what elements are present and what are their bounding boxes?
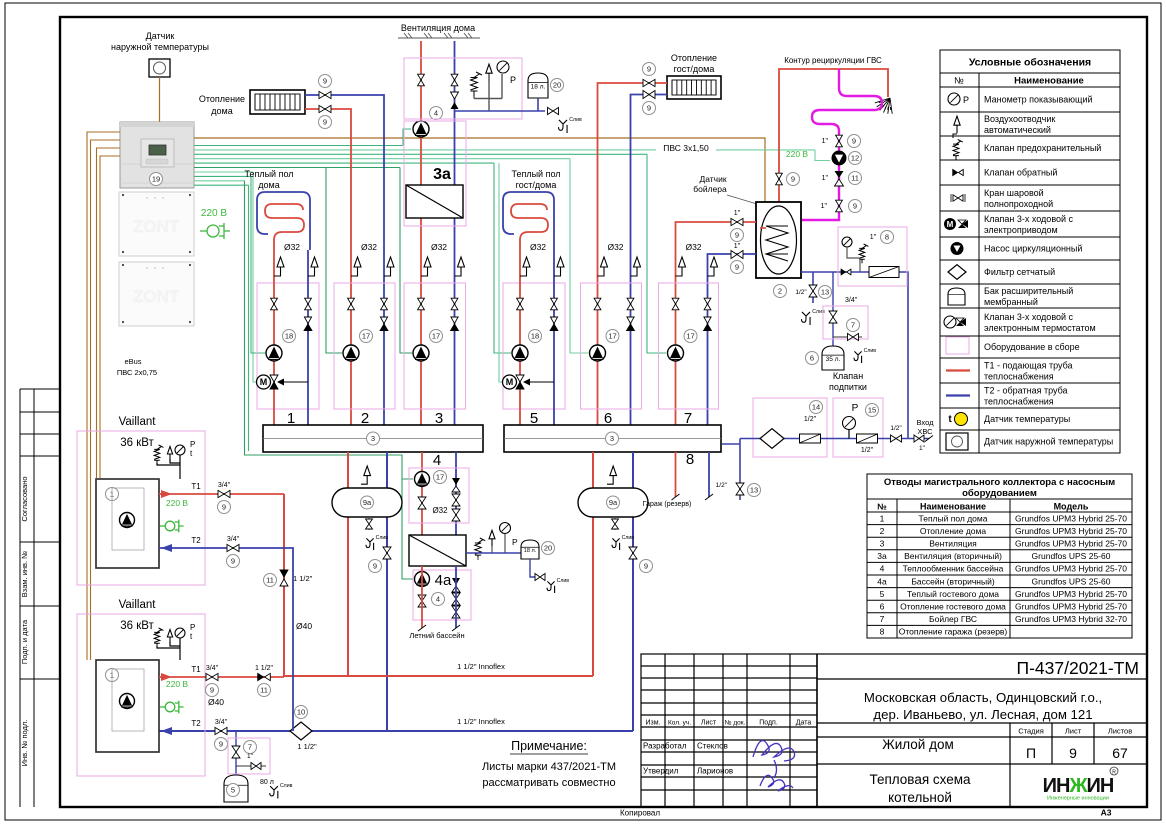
svg-text:9а: 9а — [363, 498, 372, 507]
branch 1 mixing valve M — [257, 375, 309, 389]
svg-text:дома: дома — [258, 180, 279, 190]
svg-text:Слив: Слив — [557, 578, 570, 584]
svg-text:Ø32: Ø32 — [284, 242, 300, 252]
valve 9 on radiator return — [319, 91, 331, 98]
collector B return riser — [632, 452, 634, 731]
svg-text:1": 1" — [822, 175, 829, 182]
svg-text:9а: 9а — [609, 498, 618, 507]
svg-text:P: P — [510, 75, 516, 85]
branch 1 equipment box — [257, 283, 319, 409]
svg-text:Отопление гостевого дома: Отопление гостевого дома — [900, 602, 1006, 612]
svg-text:Ø32: Ø32 — [431, 242, 447, 252]
svg-text:P: P — [512, 537, 518, 547]
svg-text:№ док.: № док. — [725, 720, 746, 727]
svg-text:1/2": 1/2" — [795, 289, 807, 296]
svg-text:ПВС 2х0,75: ПВС 2х0,75 — [117, 368, 157, 377]
svg-text:ХВС: ХВС — [917, 427, 933, 436]
strainer in group 8 — [869, 267, 899, 278]
hydraulic separator 9a (B) — [578, 488, 648, 517]
branch 3 pump — [413, 345, 429, 361]
svg-text:Воздухоотводчик: Воздухоотводчик — [984, 114, 1055, 124]
svg-text:полнопроходной: полнопроходной — [984, 199, 1053, 209]
pointer line to tank — [727, 195, 757, 204]
svg-text:Модель: Модель — [1054, 502, 1089, 512]
svg-text:5: 5 — [880, 589, 885, 599]
svg-text:Слив: Слив — [864, 348, 877, 354]
svg-text:17: 17 — [436, 473, 444, 482]
svg-text:18 л.: 18 л. — [524, 548, 537, 554]
svg-text:Летний бассейн: Летний бассейн — [409, 631, 464, 640]
svg-text:Клапан предохранительный: Клапан предохранительный — [984, 143, 1101, 153]
sensor wire — [159, 77, 161, 122]
valve 9 on radiator supply — [319, 105, 331, 112]
svg-text:11: 11 — [266, 576, 274, 585]
svg-text:3а: 3а — [877, 551, 887, 561]
cold water inlet group box 8 — [838, 227, 907, 286]
vent duct hatch line — [398, 33, 480, 38]
svg-text:Датчик наружной температуры: Датчик наружной температуры — [984, 437, 1113, 447]
recirc pump 12 — [832, 151, 847, 166]
legend symbol circulation pump — [951, 242, 964, 255]
legend symbol air vent — [954, 116, 960, 133]
branch 7 air vents — [676, 257, 686, 276]
svg-text:мембранный: мембранный — [984, 297, 1038, 307]
svg-text:Клапан 3-х ходовой с: Клапан 3-х ходовой с — [984, 214, 1074, 224]
svg-text:Ø40: Ø40 — [296, 621, 312, 631]
svg-text:Кран шаровой: Кран шаровой — [984, 188, 1044, 198]
svg-text:6: 6 — [880, 602, 885, 612]
svg-text:17: 17 — [432, 332, 440, 341]
branch 4 check valve — [452, 478, 460, 485]
branch 4 return — [455, 452, 457, 535]
valve on vent return — [451, 74, 458, 86]
svg-text:Grundfos UPM3 Hybrid 32-70: Grundfos UPM3 Hybrid 32-70 — [1015, 614, 1127, 624]
boiler 1 safety fittings — [154, 445, 163, 464]
svg-text:Примечание:: Примечание: — [511, 739, 587, 753]
svg-text:Бак расширительный: Бак расширительный — [984, 286, 1073, 296]
branch 7 check valve — [704, 317, 712, 331]
svg-text:Grundfos UPS 25-60: Grundfos UPS 25-60 — [1032, 551, 1111, 561]
boiler 1 pump — [120, 513, 135, 528]
controller unit 19 — [120, 122, 194, 188]
svg-text:Теплый пол: Теплый пол — [511, 169, 560, 179]
svg-text:9: 9 — [1069, 745, 1077, 761]
svg-text:2: 2 — [778, 287, 782, 296]
svg-text:Насос циркуляционный: Насос циркуляционный — [984, 244, 1082, 254]
separator B drain valve — [614, 517, 616, 530]
separator A drain valve — [368, 517, 370, 530]
svg-text:1": 1" — [734, 210, 741, 217]
svg-text:9: 9 — [735, 263, 739, 272]
svg-text:4: 4 — [880, 564, 885, 574]
branch 6 equipment box — [581, 283, 642, 409]
branch 2 supply valve — [348, 298, 355, 310]
svg-text:3/4": 3/4" — [218, 482, 231, 489]
svg-text:5: 5 — [231, 786, 235, 795]
svg-text:9: 9 — [853, 202, 857, 211]
svg-text:Т1 - подающая труба: Т1 - подающая труба — [984, 361, 1073, 371]
boiler 1 equipment box — [77, 431, 205, 585]
svg-text:гост/дома: гост/дома — [516, 180, 557, 190]
svg-text:220 В: 220 В — [166, 679, 189, 689]
svg-text:220 В: 220 В — [201, 208, 227, 219]
svg-text:4: 4 — [434, 109, 438, 118]
svg-text:7: 7 — [248, 743, 252, 752]
svg-text:№: № — [877, 502, 887, 512]
svg-text:Бассейн (вторичный): Бассейн (вторичный) — [911, 576, 994, 586]
valve on vent supply — [418, 74, 425, 86]
svg-text:9: 9 — [647, 104, 651, 113]
branch 4 supply from collector — [421, 452, 423, 535]
legend symbol ball valve — [953, 195, 963, 201]
220V control wiring bundle — [194, 129, 830, 579]
svg-text:Бойлер ГВС: Бойлер ГВС — [929, 614, 977, 624]
branch 4a number circle — [432, 593, 445, 606]
boiler 1 T2 arrow — [161, 544, 172, 552]
legend symbol strainer — [948, 265, 966, 280]
branch 8 supply stub — [675, 452, 677, 497]
branch 5 air vents — [520, 257, 530, 276]
svg-text:3/4": 3/4" — [215, 719, 228, 726]
boiler 2 T1 pipe — [159, 676, 284, 678]
legend symbol safety valve — [953, 140, 963, 160]
svg-text:Оборудование в сборе: Оборудование в сборе — [984, 342, 1080, 352]
svg-text:Grundfos UPS 25-60: Grundfos UPS 25-60 — [1032, 576, 1111, 586]
svg-text:11: 11 — [851, 174, 859, 183]
branch 2 air vents — [351, 257, 361, 276]
svg-text:8: 8 — [885, 233, 889, 242]
collector A (branches 1-4) — [263, 425, 483, 452]
tank number 2 — [774, 285, 787, 298]
makeup equipment boxes — [753, 398, 827, 457]
svg-text:Слив: Слив — [376, 535, 389, 541]
branch 5 pump — [512, 345, 528, 361]
outdoor temperature sensor — [149, 59, 170, 77]
svg-text:Наименование: Наименование — [1014, 76, 1084, 87]
svg-text:15: 15 — [868, 406, 876, 415]
svg-text:П: П — [1026, 745, 1036, 761]
svg-text:3: 3 — [880, 539, 885, 549]
branch 4 pump 17 — [415, 472, 430, 487]
branch 4a equipment box — [413, 570, 471, 620]
svg-text:Grundfos UPM3 Hybrid 25-70: Grundfos UPM3 Hybrid 25-70 — [1015, 602, 1127, 612]
check valve on vent return — [451, 92, 459, 99]
sensor bus wire to boiler tank — [194, 138, 765, 202]
branch 3 air vents — [421, 257, 431, 276]
legend symbol manometer — [948, 93, 960, 105]
svg-text:рассматривать совместно: рассматривать совместно — [482, 777, 615, 789]
svg-text:Вход: Вход — [917, 418, 935, 427]
collector B supply riser — [592, 452, 594, 676]
svg-text:наружной температуры: наружной температуры — [111, 42, 209, 52]
svg-text:Ларионов: Ларионов — [697, 767, 733, 776]
svg-text:1 1/2": 1 1/2" — [255, 665, 274, 672]
svg-text:P: P — [190, 623, 195, 632]
svg-text:дома: дома — [211, 106, 232, 116]
branch 3 return valve — [451, 298, 458, 310]
branch 3 supply valve — [418, 298, 425, 310]
group 8 piping — [847, 247, 860, 272]
svg-text:1 1/2": 1 1/2" — [297, 742, 317, 751]
svg-text:67: 67 — [1112, 745, 1128, 761]
svg-text:Стеклов: Стеклов — [697, 742, 728, 751]
svg-text:Инженерные инновации: Инженерные инновации — [1047, 796, 1109, 802]
svg-text:9: 9 — [323, 77, 327, 86]
svg-text:Московская область, Одинцовски: Московская область, Одинцовский г.о., — [864, 690, 1102, 705]
branch 4a pump — [415, 572, 430, 587]
branch 6 supply valve — [594, 298, 601, 310]
air vent — [486, 64, 492, 81]
branch 6 return valve — [627, 298, 634, 310]
svg-text:оборудованием: оборудованием — [962, 488, 1037, 499]
branch 4 valves — [418, 497, 426, 509]
svg-text:Ø32: Ø32 — [607, 242, 623, 252]
svg-text:Вентиляция дома: Вентиляция дома — [401, 23, 475, 33]
svg-text:Листов: Листов — [1108, 727, 1132, 736]
svg-text:Ø32: Ø32 — [361, 242, 377, 252]
branch 6 check valve — [627, 317, 635, 331]
svg-text:2: 2 — [880, 526, 885, 536]
svg-text:10: 10 — [297, 708, 305, 717]
branch 5 supply valve — [517, 298, 524, 310]
legend symbol check valve — [953, 170, 964, 176]
separator B drain — [612, 538, 620, 550]
pump 4 of vent circuit — [413, 121, 429, 137]
svg-text:9: 9 — [222, 503, 226, 512]
svg-text:Ø32: Ø32 — [685, 242, 701, 252]
branch 1 supply valve — [271, 298, 278, 310]
tank coil supply stub (red) — [760, 227, 766, 229]
svg-text:3а: 3а — [433, 166, 451, 183]
svg-text:6: 6 — [810, 354, 814, 363]
branch 5 check valve — [550, 317, 558, 331]
boiler 1 T1 pipe — [159, 493, 284, 495]
branch 3 equipment box — [404, 283, 466, 409]
legend symbol T1 — [946, 369, 970, 371]
boiler drain group with 80l tank — [235, 731, 237, 775]
boiler 2 equipment box — [77, 614, 205, 776]
boiler 1 T1 arrow — [161, 490, 172, 498]
svg-text:Гараж (резерв): Гараж (резерв) — [643, 501, 692, 508]
svg-text:Отопление дома: Отопление дома — [920, 526, 986, 536]
svg-text:1 1/2" Innoflex: 1 1/2" Innoflex — [457, 717, 505, 726]
svg-text:Ø40: Ø40 — [208, 697, 224, 707]
strainer filter 14 — [810, 401, 823, 414]
cold water line from tank bottom — [801, 272, 908, 439]
svg-text:36 кВт: 36 кВт — [120, 620, 154, 632]
svg-text:20: 20 — [544, 544, 552, 553]
safety valve — [471, 72, 483, 96]
branch 6 air vents — [598, 257, 608, 276]
svg-text:4а: 4а — [877, 576, 887, 586]
boiler 2 T1 arrow — [161, 673, 172, 681]
svg-text:Тепловая схема: Тепловая схема — [869, 772, 971, 787]
svg-text:Grundfos UPM3 Hybrid 25-70: Grundfos UPM3 Hybrid 25-70 — [1015, 526, 1127, 536]
svg-text:Отопление гаража (резерв): Отопление гаража (резерв) — [899, 627, 1008, 637]
branch 1 return pipe — [307, 250, 309, 425]
svg-text:17: 17 — [608, 332, 616, 341]
guest radiator supply (red) branch 6 — [598, 83, 668, 425]
svg-text:Теплый гостевого дома: Теплый гостевого дома — [907, 589, 999, 599]
check valve in group 8 — [841, 269, 851, 275]
svg-text:Манометр показывающий: Манометр показывающий — [984, 95, 1093, 105]
branch 5 return pipe — [553, 250, 555, 425]
tank return pipe (blue) branch 7 — [708, 254, 757, 425]
svg-text:1 1/2": 1 1/2" — [293, 574, 313, 583]
svg-text:1": 1" — [870, 234, 877, 241]
svg-text:1: 1 — [880, 513, 885, 523]
svg-text:Наименование: Наименование — [920, 502, 986, 512]
valve 9 under separator A — [383, 547, 391, 559]
svg-text:Grundfos UPM3 Hybrid 25-70: Grundfos UPM3 Hybrid 25-70 — [1015, 539, 1127, 549]
boiler 2 pump — [120, 694, 135, 709]
guest radiator return (blue) branch 6 — [631, 95, 668, 426]
boiler 2 T2 arrow — [161, 727, 172, 735]
svg-text:20: 20 — [553, 81, 561, 90]
svg-text:11: 11 — [260, 686, 268, 695]
controller number 19 — [150, 173, 163, 186]
svg-text:9: 9 — [852, 137, 856, 146]
svg-text:Подп. и дата: Подп. и дата — [20, 619, 29, 664]
svg-text:17: 17 — [362, 332, 370, 341]
floor heating loop (guest house) — [503, 192, 554, 250]
svg-text:Vaillant: Vaillant — [119, 416, 157, 428]
svg-text:18 л.: 18 л. — [531, 84, 546, 91]
svg-text:Взам. инв. №: Взам. инв. № — [20, 551, 29, 597]
branch 2 equipment box — [334, 283, 395, 409]
svg-text:Отопление: Отопление — [671, 53, 717, 63]
left margin column grid — [20, 389, 59, 807]
hydraulic separator 9a (A) — [332, 488, 402, 517]
branch 2 return valve — [381, 298, 388, 310]
svg-text:3/4": 3/4" — [206, 665, 219, 672]
pool expansion tank 18l — [521, 540, 539, 559]
svg-text:Отопление: Отопление — [199, 94, 245, 104]
branch 5 circle number 18 — [529, 330, 542, 343]
pool pipes down — [421, 566, 423, 628]
svg-text:Теплообменник бассейна: Теплообменник бассейна — [903, 564, 1004, 574]
pump table Отводы магистрального коллектора — [867, 474, 1132, 638]
valve 9 under separator B — [629, 547, 637, 559]
branch 1 supply pipe — [273, 250, 275, 425]
svg-text:Т2 - обратная труба: Т2 - обратная труба — [984, 386, 1068, 396]
svg-text:1": 1" — [734, 243, 741, 250]
svg-text:№: № — [954, 76, 964, 86]
svg-text:Фильтр сетчатый: Фильтр сетчатый — [984, 267, 1055, 277]
svg-text:Отводы магистрального коллекто: Отводы магистрального коллектора с насос… — [884, 477, 1115, 488]
legend symbol expansion tank — [948, 288, 965, 305]
svg-text:1": 1" — [247, 753, 254, 760]
expansion tank 80 l — [224, 775, 248, 802]
return main (blue) — [159, 730, 633, 732]
svg-text:3: 3 — [610, 434, 614, 443]
svg-text:13: 13 — [821, 288, 829, 297]
branch 2 circle number 17 — [360, 330, 373, 343]
branch 1 air vents — [274, 257, 284, 276]
svg-text:Вентиляция (вторичный): Вентиляция (вторичный) — [904, 551, 1002, 561]
floor heating loop (house) — [257, 192, 310, 250]
drain under tank — [802, 312, 811, 325]
branch 7 pump — [668, 345, 684, 361]
legend symbol 3-way valve with actuator — [944, 218, 956, 230]
svg-text:9: 9 — [644, 562, 648, 571]
svg-text:бойлера: бойлера — [693, 184, 727, 194]
svg-text:Vaillant: Vaillant — [119, 599, 157, 611]
svg-text:220 В: 220 В — [166, 498, 189, 508]
svg-text:котельной: котельной — [888, 790, 952, 805]
svg-text:1/2": 1/2" — [890, 425, 902, 432]
svg-text:Жилой дом: Жилой дом — [882, 737, 954, 752]
legend table Условные обозначения — [940, 50, 1120, 453]
svg-text:Grundfos UPM3 Hybrid 25-70: Grundfos UPM3 Hybrid 25-70 — [1015, 564, 1127, 574]
branch 3 circle number 17 — [430, 330, 443, 343]
svg-text:17: 17 — [686, 332, 694, 341]
svg-text:Теплый пол: Теплый пол — [244, 169, 293, 179]
legend symbol equipment box — [946, 337, 969, 354]
svg-text:Клапан 3-х ходовой с: Клапан 3-х ходовой с — [984, 312, 1074, 322]
svg-text:7: 7 — [851, 321, 855, 330]
signatures — [753, 741, 795, 791]
branch 6 pump — [590, 345, 606, 361]
svg-text:гост/дома: гост/дома — [674, 64, 715, 74]
branch 1 pump — [266, 345, 282, 361]
safety group piping — [474, 74, 502, 111]
svg-text:ZONT: ZONT — [133, 217, 180, 236]
220 V plug at controller — [200, 223, 230, 239]
radiator house heating — [250, 90, 305, 114]
safety valve in group 8 — [859, 244, 868, 263]
svg-text:Разработал: Разработал — [643, 742, 687, 751]
svg-text:P: P — [190, 440, 195, 449]
boiler 2 number — [106, 669, 119, 682]
svg-text:Датчик: Датчик — [146, 31, 175, 41]
svg-text:Копировал: Копировал — [620, 809, 660, 818]
vent supply pipe (red) branch 3 — [420, 41, 422, 425]
ZONT module 1 — [119, 192, 194, 256]
svg-text:ПВС 3х1,50: ПВС 3х1,50 — [663, 143, 709, 153]
branch 4a valves — [418, 595, 426, 607]
svg-text:А3: А3 — [1101, 808, 1112, 818]
svg-text:теплоснабжения: теплоснабжения — [984, 372, 1054, 382]
svg-text:Клапан: Клапан — [833, 371, 863, 381]
makeup feed into collector B — [739, 439, 741, 501]
svg-text:M: M — [506, 377, 514, 387]
svg-text:Grundfos UPM3 Hybrid 25-70: Grundfos UPM3 Hybrid 25-70 — [1015, 513, 1127, 523]
expansion tank 18 l — [528, 73, 548, 98]
makeup line — [740, 438, 929, 440]
svg-text:Листы марки 437/2021-ТМ: Листы марки 437/2021-ТМ — [482, 761, 616, 773]
svg-text:Кол. уч.: Кол. уч. — [668, 720, 691, 727]
cable label ПВС 3х1,50 — [656, 141, 716, 153]
legend symbol 3-way thermostat valve — [944, 316, 956, 328]
eBus wires to boilers — [87, 132, 120, 660]
boiler 1 T2 pipe — [159, 548, 293, 731]
svg-text:13: 13 — [750, 486, 758, 495]
legend symbol outdoor sensor — [946, 433, 968, 450]
svg-text:eBus: eBus — [124, 357, 141, 366]
svg-text:Согласовано: Согласовано — [20, 476, 29, 521]
collector B (branches 5-8) — [504, 425, 721, 452]
svg-text:Датчик температуры: Датчик температуры — [984, 414, 1070, 424]
svg-text:подпитки: подпитки — [829, 382, 867, 392]
branch 1 check valve — [304, 317, 312, 331]
svg-text:P: P — [963, 95, 969, 105]
drain at 35l tank — [854, 351, 862, 363]
svg-text:14: 14 — [812, 403, 820, 412]
inlet valve 1" — [914, 435, 924, 442]
svg-text:Инв. № подл.: Инв. № подл. — [20, 720, 29, 767]
DHW tank (boiler) — [756, 202, 801, 278]
